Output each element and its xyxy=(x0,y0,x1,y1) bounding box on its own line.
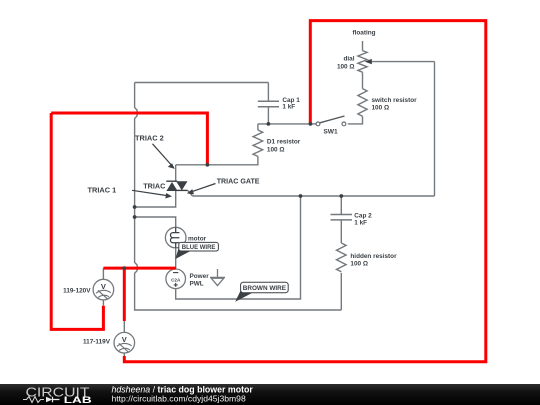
wire triac bottom lead xyxy=(135,191,176,207)
red wire left loop xyxy=(51,113,207,329)
svg-text:floating: floating xyxy=(352,30,375,37)
resistor D1 xyxy=(253,130,263,156)
red wire big right loop xyxy=(124,21,486,362)
capacitor Cap 1 xyxy=(258,101,279,107)
ground xyxy=(210,269,225,286)
svg-text:TRIAC 1: TRIAC 1 xyxy=(88,186,117,195)
wire triac top lead xyxy=(175,165,177,181)
annotation TRIAC GATE xyxy=(187,177,260,194)
svg-text:V: V xyxy=(101,282,106,291)
wire triac gate horizontal xyxy=(193,195,435,197)
svg-text:http://circuitlab.com/cdyjd45j: http://circuitlab.com/cdyjd45j3bm98 xyxy=(112,394,246,404)
wire D1 bottom lead xyxy=(176,156,258,164)
svg-text:1 kF: 1 kF xyxy=(282,104,295,111)
voltmeter V1 xyxy=(93,268,114,306)
wire horizontal cap1/D1/switch node xyxy=(258,123,311,125)
red wire motor node xyxy=(103,268,175,321)
flag BLUE WIRE xyxy=(175,242,218,259)
svg-text:switch resistor: switch resistor xyxy=(372,97,418,104)
svg-text:C2A: C2A xyxy=(171,277,181,282)
wire cap1 top lead xyxy=(267,83,269,102)
svg-text:motor: motor xyxy=(188,236,207,243)
svg-text:LAB: LAB xyxy=(64,395,92,405)
svg-text:SW1: SW1 xyxy=(323,129,338,136)
switch SW1 xyxy=(316,116,346,126)
wire cap1 bottom lead xyxy=(267,107,269,124)
resistor switch resistor xyxy=(358,89,367,117)
wire left vertical with hops xyxy=(135,83,342,311)
wire motor bottom lead xyxy=(175,248,177,270)
svg-text:117-119V: 117-119V xyxy=(83,339,111,346)
triac TRIAC xyxy=(166,181,187,191)
wire D1 top lead xyxy=(257,124,259,130)
logo squiggle resistor+diode xyxy=(23,397,44,403)
resistor hidden resistor xyxy=(336,243,346,272)
wire pot wiper horizontal xyxy=(372,61,435,63)
footer bar xyxy=(0,384,540,405)
wire red stub to switch xyxy=(310,123,316,125)
svg-text:V: V xyxy=(122,335,127,344)
wire pot to switch resistor xyxy=(362,72,364,88)
svg-text:BLUE WIRE: BLUE WIRE xyxy=(182,245,216,251)
svg-text:1 kF: 1 kF xyxy=(354,219,367,226)
svg-text:119-120V: 119-120V xyxy=(63,287,91,294)
svg-text:hidden resistor: hidden resistor xyxy=(350,253,397,260)
svg-text:BROWN WIRE: BROWN WIRE xyxy=(243,285,287,292)
svg-text:D1 resistor: D1 resistor xyxy=(267,138,301,145)
svg-text:100 Ω: 100 Ω xyxy=(337,63,355,70)
voltage source Power PWL xyxy=(166,269,186,289)
potentiometer dial xyxy=(358,51,367,73)
wire top horizontal xyxy=(135,82,269,84)
svg-text:TRIAC GATE: TRIAC GATE xyxy=(217,177,260,185)
junction dots xyxy=(122,122,343,270)
capacitor Cap 2 xyxy=(331,215,353,220)
potentiometer dial wiper arrow xyxy=(365,59,372,64)
svg-text:Power: Power xyxy=(190,273,210,280)
wire hidden resistor bottom lead xyxy=(340,273,342,310)
wire pot wiper vertical xyxy=(434,62,436,196)
svg-text:TRIAC 2: TRIAC 2 xyxy=(135,134,164,143)
wire triac gate diagonal xyxy=(188,190,193,196)
wire cap2 branch xyxy=(340,196,342,214)
wire cap2 bottom lead xyxy=(340,220,342,243)
wire switch resistor bottom lead xyxy=(348,116,363,124)
svg-text:PWL: PWL xyxy=(190,280,204,287)
motor M1 xyxy=(165,227,186,248)
wire motor top branch xyxy=(135,217,176,227)
svg-text:100 Ω: 100 Ω xyxy=(372,105,390,112)
wire pot top lead (floating) xyxy=(362,41,364,51)
svg-text:100 Ω: 100 Ω xyxy=(350,260,368,267)
annotation TRIAC 1 xyxy=(88,186,173,199)
svg-text:dial: dial xyxy=(343,55,354,62)
voltmeter V2 xyxy=(114,321,135,358)
flag BROWN WIRE xyxy=(235,282,288,302)
svg-text:TRIAC: TRIAC xyxy=(143,182,165,191)
svg-text:100 Ω: 100 Ω xyxy=(267,146,285,153)
wire power bottom to brown rail xyxy=(176,196,301,299)
annotation TRIAC 2 xyxy=(135,134,175,169)
